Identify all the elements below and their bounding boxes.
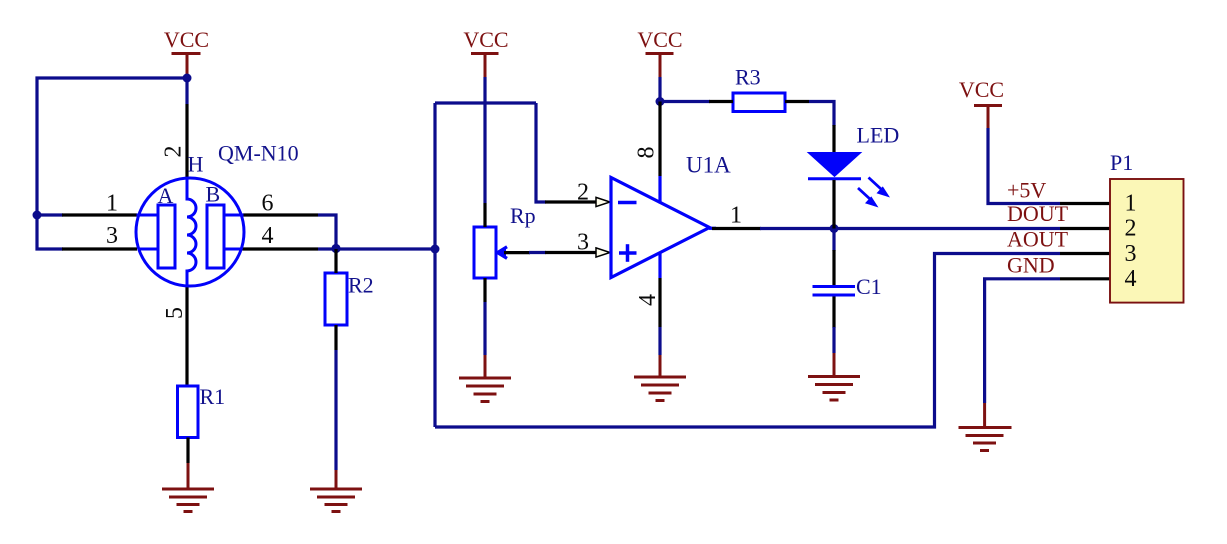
- Rp wiper shaft: [504, 251, 530, 254]
- wire top horizontal to inverting input: [435, 101, 536, 104]
- sensor electrode plate B: [207, 205, 224, 268]
- node junction pin1 / left rail: [33, 211, 42, 220]
- svg-text:8: 8: [634, 147, 660, 159]
- svg-text:2: 2: [161, 146, 187, 158]
- ground below Rp: [459, 355, 511, 402]
- svg-text:R3: R3: [735, 65, 761, 90]
- sensor QM-N10 pin 4: [243, 247, 319, 250]
- svg-text:LED: LED: [857, 123, 900, 148]
- svg-text:H: H: [188, 152, 204, 177]
- wire analog feedback bottom rail: [435, 254, 1060, 428]
- Rp wiper arrowhead: [497, 249, 506, 257]
- op-amp pin4 blue segment: [658, 253, 661, 279]
- op-amp U1A body: [611, 178, 710, 278]
- svg-text:4: 4: [635, 294, 661, 306]
- wire output net to connector: [760, 227, 1060, 230]
- svg-text:U1A: U1A: [686, 153, 731, 178]
- op-amp minus sign: [618, 201, 637, 205]
- power symbol VCC (op-amp): [646, 54, 674, 78]
- wire R3 to LED: [809, 102, 834, 127]
- connector P1 pin 2 lead: [1060, 227, 1110, 230]
- svg-text:1: 1: [730, 203, 742, 229]
- wire output node down to C1: [832, 229, 835, 252]
- svg-text:VCC: VCC: [959, 77, 1004, 102]
- pin R2 top: [334, 249, 337, 273]
- sensor inner lead right-upper: [224, 214, 244, 217]
- wire wiper to op-amp pin 3: [529, 251, 546, 254]
- connector P1 pin 3 lead: [1060, 252, 1110, 255]
- power symbol VCC (middle, Rp): [471, 54, 499, 78]
- sensor QM-N10 pin 1: [62, 213, 137, 216]
- pin Rp top: [483, 203, 486, 227]
- pin 2 input arrowhead: [596, 197, 610, 206]
- svg-text:3: 3: [577, 230, 589, 256]
- node junction pin8/R3: [656, 97, 665, 106]
- wire VCC node to sensor pin 2: [185, 78, 188, 104]
- wire R2 to ground: [334, 350, 337, 470]
- wire stub to pin1: [37, 213, 63, 216]
- svg-text:VCC: VCC: [164, 27, 209, 52]
- resistor R2: [325, 273, 347, 325]
- op-amp U1A pin 3 lead: [545, 251, 596, 254]
- svg-text:GND: GND: [1007, 252, 1055, 277]
- wire/pin into LED top: [832, 125, 835, 153]
- op-amp output pin 1 lead: [712, 227, 761, 230]
- svg-text:+5V: +5V: [1007, 178, 1046, 203]
- node junction R2 top: [331, 244, 340, 253]
- sensor QM-N10 body circle: [136, 178, 244, 286]
- wire node to R3: [660, 100, 710, 103]
- wire sensor rail vertical: [433, 103, 436, 427]
- op-amp output blue segment: [709, 227, 716, 230]
- op-amp plus sign: [619, 244, 637, 262]
- node junction LED/C1 on output: [830, 224, 839, 233]
- power symbol VCC (right, connector): [974, 106, 1002, 129]
- op-amp pin8 blue segment: [658, 176, 661, 204]
- wire pin4 node to comparator rail: [318, 247, 435, 250]
- op-amp U1A pin 2 lead: [545, 200, 596, 203]
- resistor R1: [178, 386, 199, 438]
- connector P1 pin 4 lead: [1060, 277, 1110, 280]
- sensor inner lead left-lower: [138, 248, 159, 251]
- wire pin6 corner down to pin4 node: [318, 215, 336, 249]
- pin LED bottom: [832, 180, 835, 229]
- capacitor C1: [813, 287, 856, 296]
- svg-text:2: 2: [1125, 216, 1137, 242]
- sensor inner lead left-upper: [137, 214, 159, 217]
- LED cathode bar: [808, 177, 861, 180]
- wire VCC loop to sensor pins 1,3: [37, 78, 187, 249]
- op-amp U1A pin 8 lead: [658, 102, 661, 177]
- LED D1 body: [808, 153, 861, 177]
- ground below R1: [162, 463, 214, 512]
- op-amp U1A pin 4 lead: [658, 278, 661, 327]
- sensor QM-N10 pin 6: [243, 213, 319, 216]
- svg-text:VCC: VCC: [637, 27, 682, 52]
- svg-text:AOUT: AOUT: [1007, 227, 1069, 252]
- svg-text:2: 2: [577, 180, 589, 206]
- pin C1 bottom: [832, 297, 835, 329]
- svg-text:4: 4: [262, 223, 274, 249]
- svg-text:C1: C1: [856, 274, 882, 299]
- pin 3 input arrowhead: [596, 248, 610, 257]
- sensor inner lead right-lower: [224, 248, 243, 251]
- LED emission arrow 2: [858, 188, 871, 200]
- svg-text:QM-N10: QM-N10: [218, 141, 299, 166]
- pin Rp bottom: [483, 278, 486, 302]
- wire R1 to ground: [186, 438, 189, 464]
- svg-text:Rp: Rp: [510, 203, 536, 228]
- resistor R3: [733, 93, 785, 112]
- svg-text:1: 1: [1125, 191, 1137, 217]
- svg-text:DOUT: DOUT: [1007, 201, 1069, 226]
- svg-text:R2: R2: [348, 273, 374, 298]
- power symbol VCC (left, sensor heater): [172, 54, 201, 79]
- wire C1 to ground: [832, 327, 835, 353]
- svg-text:6: 6: [262, 191, 274, 217]
- wire op-amp pin4 to ground: [658, 327, 661, 355]
- LED emission arrow 1: [869, 178, 882, 190]
- pin C1 top: [832, 250, 835, 285]
- ground below C1: [808, 353, 860, 400]
- sensor QM-N10 pin 2: [185, 104, 188, 179]
- node junction at VCC / pin2: [183, 74, 192, 83]
- svg-text:A: A: [158, 183, 174, 208]
- pin R3 left: [709, 100, 733, 103]
- connector P1 body: [1110, 179, 1184, 303]
- wire VCC to pin 8 node: [658, 77, 661, 102]
- svg-text:P1: P1: [1110, 150, 1133, 175]
- connector P1 pin 1 lead: [1060, 202, 1110, 205]
- node junction sensor rail: [431, 245, 440, 254]
- svg-text:VCC: VCC: [463, 27, 508, 52]
- sensor QM-N10 pin 5: [185, 285, 188, 386]
- ground below connector: [959, 403, 1012, 451]
- svg-text:B: B: [206, 182, 221, 207]
- sensor QM-N10 pin 3: [62, 247, 137, 250]
- pin R3 right: [785, 100, 809, 103]
- svg-text:3: 3: [106, 223, 118, 249]
- svg-text:5: 5: [162, 307, 188, 319]
- ground below op-amp: [634, 355, 686, 401]
- sensor electrode plate A: [158, 205, 175, 268]
- svg-text:R1: R1: [200, 384, 226, 409]
- wire GND net from connector pin 4: [985, 279, 1060, 403]
- wire VCC down to Rp: [483, 77, 486, 203]
- svg-text:3: 3: [1125, 241, 1137, 267]
- pin R2 bottom: [334, 325, 337, 350]
- wire VCC to connector pin 1: [988, 128, 1060, 204]
- ground below R2: [310, 470, 362, 512]
- sensor heater coil H: [187, 179, 196, 285]
- wire Rp to ground: [483, 302, 486, 355]
- svg-text:4: 4: [1125, 266, 1137, 292]
- svg-text:1: 1: [106, 191, 118, 217]
- wire down to op-amp pin 2: [536, 103, 546, 202]
- potentiometer Rp: [474, 227, 496, 278]
